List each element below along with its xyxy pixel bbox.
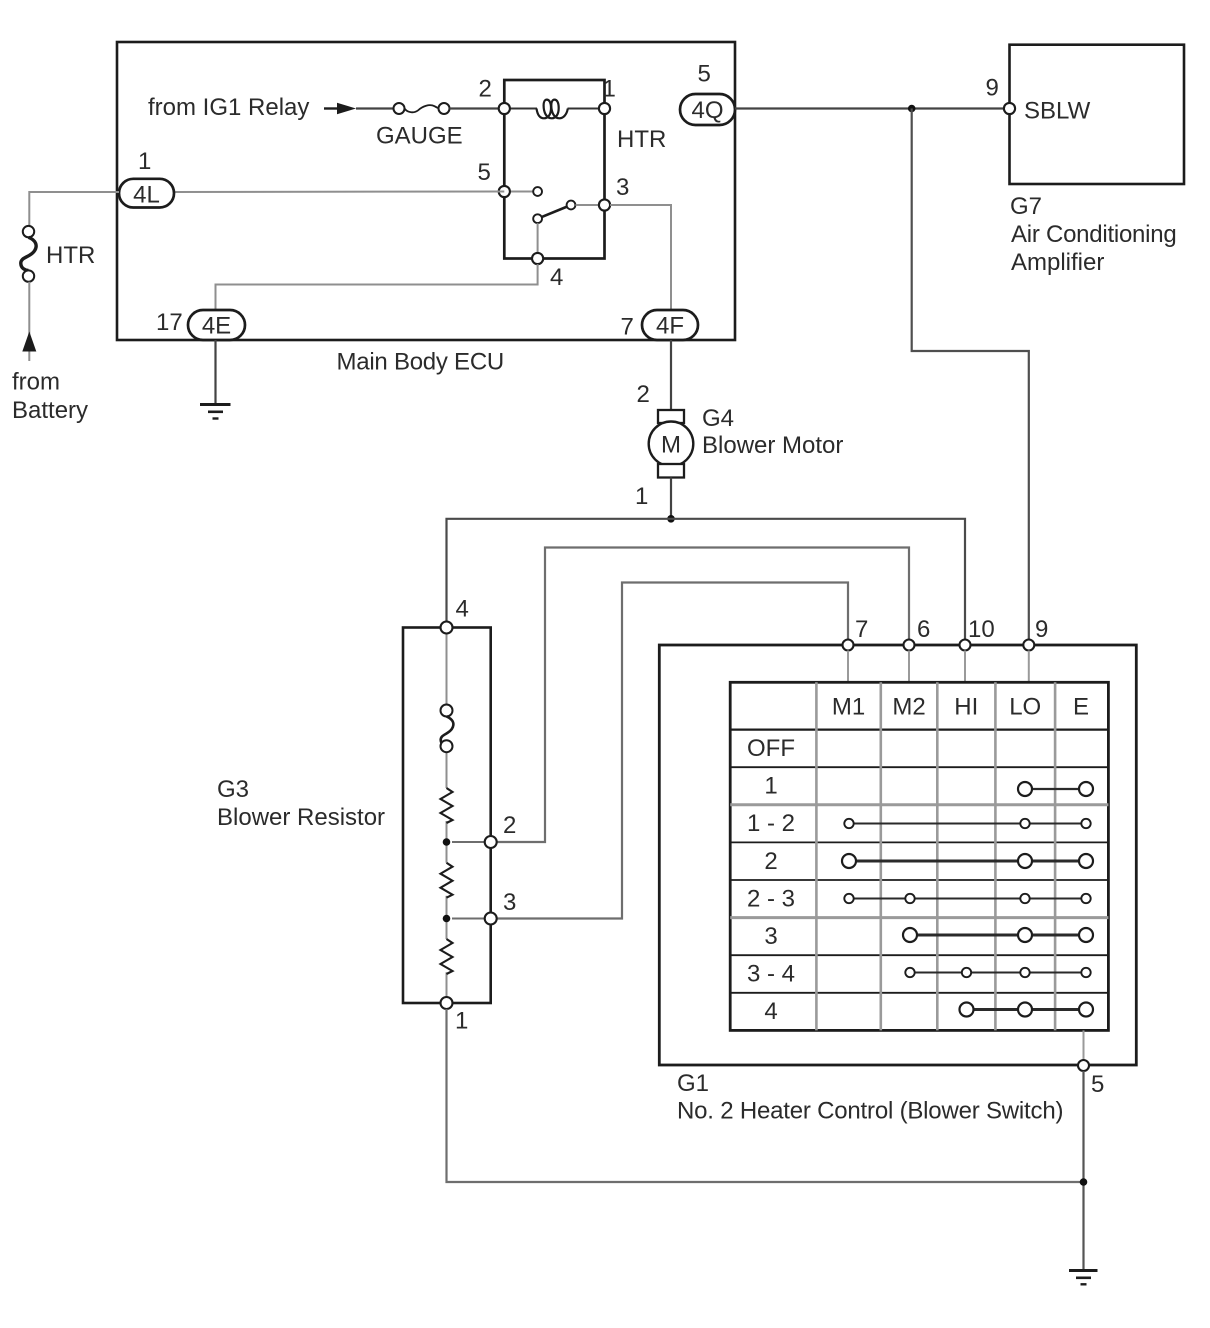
svg-text:10: 10	[968, 616, 995, 643]
svg-text:LO: LO	[1009, 694, 1041, 721]
svg-text:4: 4	[764, 998, 777, 1025]
svg-text:1: 1	[138, 148, 151, 175]
arrow from Battery	[12, 332, 88, 425]
pin 2 relay	[479, 76, 510, 115]
svg-text:4: 4	[456, 596, 469, 623]
svg-text:HTR: HTR	[617, 126, 666, 153]
svg-text:2: 2	[764, 848, 777, 875]
svg-text:4Q: 4Q	[691, 97, 723, 124]
contacts row 3 - 4	[905, 968, 1090, 977]
svg-text:SBLW: SBLW	[1024, 98, 1091, 125]
svg-text:1: 1	[455, 1008, 468, 1035]
svg-text:4L: 4L	[133, 181, 160, 208]
svg-text:from: from	[12, 369, 60, 396]
svg-text:Main Body ECU: Main Body ECU	[337, 349, 504, 376]
G1 box blower switch	[659, 645, 1136, 1125]
wire fuse to battery arrow	[28, 282, 30, 336]
resistor R1	[441, 788, 453, 823]
fuse GAUGE	[376, 103, 463, 150]
svg-text:M1: M1	[832, 694, 865, 721]
junction node motor bus	[667, 515, 675, 523]
svg-text:4: 4	[550, 264, 563, 291]
svg-text:5: 5	[478, 159, 491, 186]
wire bus resistor pin2 to switch pin6	[491, 548, 909, 843]
wire IG1 to fuse	[356, 107, 394, 109]
svg-text:Blower Resistor: Blower Resistor	[217, 804, 385, 831]
pin 5 relay	[478, 159, 510, 197]
wire 4L to battery branch	[29, 192, 119, 226]
svg-text:from IG1 Relay: from IG1 Relay	[148, 94, 309, 121]
contacts row 2	[842, 854, 1093, 868]
table header labels	[832, 694, 1089, 721]
svg-text:M: M	[661, 432, 681, 459]
junction node ground bus	[1080, 1178, 1088, 1186]
junction node SBLW branch	[908, 105, 916, 113]
svg-text:1 - 2: 1 - 2	[747, 810, 795, 837]
svg-text:G7: G7	[1010, 193, 1042, 220]
wire pin3 to 4F	[610, 205, 671, 310]
svg-text:Blower Motor: Blower Motor	[702, 432, 843, 459]
connector oval 4F pin 7	[621, 310, 699, 341]
pin 4 relay	[532, 253, 563, 291]
svg-text:4F: 4F	[656, 313, 684, 340]
svg-text:5: 5	[1091, 1071, 1104, 1098]
connector oval 4L pin 1	[119, 148, 174, 208]
wire 4Q to SBLW	[735, 107, 1004, 109]
contacts row 3	[903, 928, 1093, 942]
svg-text:E: E	[1073, 694, 1089, 721]
resistor R3	[441, 939, 453, 974]
connector oval 4Q pin 5	[680, 61, 735, 126]
svg-text:2: 2	[503, 812, 516, 839]
contacts row 2 - 3	[844, 894, 1090, 903]
svg-text:4E: 4E	[202, 313, 231, 340]
svg-text:3 - 4: 3 - 4	[747, 961, 795, 988]
svg-text:3: 3	[616, 174, 629, 201]
wire motor pin1 to bus	[670, 478, 672, 520]
pin 1 relay	[599, 76, 616, 115]
ground ECU	[200, 405, 231, 419]
pin 7 G1	[843, 616, 869, 682]
svg-text:Air Conditioning: Air Conditioning	[1011, 221, 1176, 248]
ECU box U Main Body ECU	[117, 42, 735, 376]
svg-text:1: 1	[603, 76, 616, 103]
wire bus resistor pin3 to switch pin7	[491, 583, 848, 919]
svg-text:M2: M2	[892, 694, 925, 721]
contacts row 1	[1018, 782, 1093, 796]
svg-text:2: 2	[479, 76, 492, 103]
coil L relay	[537, 100, 568, 119]
svg-text:1: 1	[764, 773, 777, 800]
wire 4E to ground	[214, 340, 216, 404]
svg-text:HTR: HTR	[46, 242, 95, 269]
svg-text:17: 17	[156, 309, 183, 336]
resistor internal wires	[446, 634, 448, 998]
connector oval 4E pin 17	[156, 309, 245, 340]
junction node resistor pin3	[443, 915, 451, 923]
svg-text:9: 9	[1035, 616, 1048, 643]
svg-text:6: 6	[917, 616, 930, 643]
table row labels	[747, 735, 795, 1025]
svg-text:GAUGE: GAUGE	[376, 123, 463, 150]
svg-text:1: 1	[635, 483, 648, 510]
wire 4L to pin5	[174, 191, 504, 194]
G3 box Blower Resistor	[217, 628, 491, 1004]
motor G4 blower	[635, 381, 843, 510]
svg-text:G3: G3	[217, 776, 249, 803]
svg-text:Amplifier: Amplifier	[1011, 249, 1104, 276]
contacts row 1 - 2	[844, 819, 1090, 828]
svg-text:HI: HI	[954, 694, 978, 721]
pin 4 G3	[441, 596, 469, 634]
arrow IG1 feed	[324, 103, 356, 114]
svg-text:7: 7	[621, 314, 634, 341]
G7 box Air Conditioning Amplifier	[1010, 45, 1185, 276]
svg-text:9: 9	[986, 75, 999, 102]
svg-text:7: 7	[855, 616, 868, 643]
pin 10 G1	[960, 616, 995, 682]
wire pin5 to ground	[1082, 1071, 1084, 1270]
relay coil wire pin2 to pin1	[504, 108, 537, 110]
svg-text:3: 3	[503, 889, 516, 916]
pin 9 SBLW	[986, 75, 1016, 115]
svg-text:G4: G4	[702, 405, 734, 432]
svg-text:2: 2	[637, 381, 650, 408]
resistor R2	[441, 863, 453, 898]
pin 9 G1	[1023, 616, 1048, 682]
contacts row 4	[960, 1003, 1094, 1017]
switch table frame	[730, 682, 1108, 1030]
wire 4F to motor pin 2	[670, 340, 672, 410]
wire junction to switch pin 9	[912, 109, 1029, 640]
wire bus motor to resistor pin4 and switch pin10	[447, 519, 966, 640]
pin 3 relay	[599, 174, 629, 211]
svg-text:G1: G1	[677, 1070, 709, 1097]
svg-text:3: 3	[764, 923, 777, 950]
wire fuse to relay pin 2	[450, 107, 500, 109]
svg-text:2 - 3: 2 - 3	[747, 885, 795, 912]
pin 3 G3	[452, 889, 516, 925]
pin 2 G3	[452, 812, 516, 848]
thermal fuse G3	[441, 705, 454, 753]
junction node resistor pin2	[443, 838, 451, 846]
wire resistor pin1 to ground bus	[447, 1009, 1084, 1182]
svg-text:Battery: Battery	[12, 397, 88, 424]
svg-text:No. 2 Heater Control (Blower S: No. 2 Heater Control (Blower Switch)	[677, 1098, 1063, 1125]
svg-text:5: 5	[698, 61, 711, 88]
relay HTR in ECU	[504, 80, 666, 259]
ground G1	[1069, 1271, 1098, 1285]
pin 5 relay stub	[504, 187, 542, 196]
pin 1 G3	[441, 997, 469, 1035]
svg-text:OFF: OFF	[747, 735, 795, 762]
pin 5 G1	[1078, 1030, 1104, 1098]
wire pin4 to 4E	[216, 264, 538, 310]
fuse HTR battery	[21, 226, 96, 282]
pin 6 G1	[904, 616, 931, 682]
relay switch arm	[533, 201, 599, 253]
